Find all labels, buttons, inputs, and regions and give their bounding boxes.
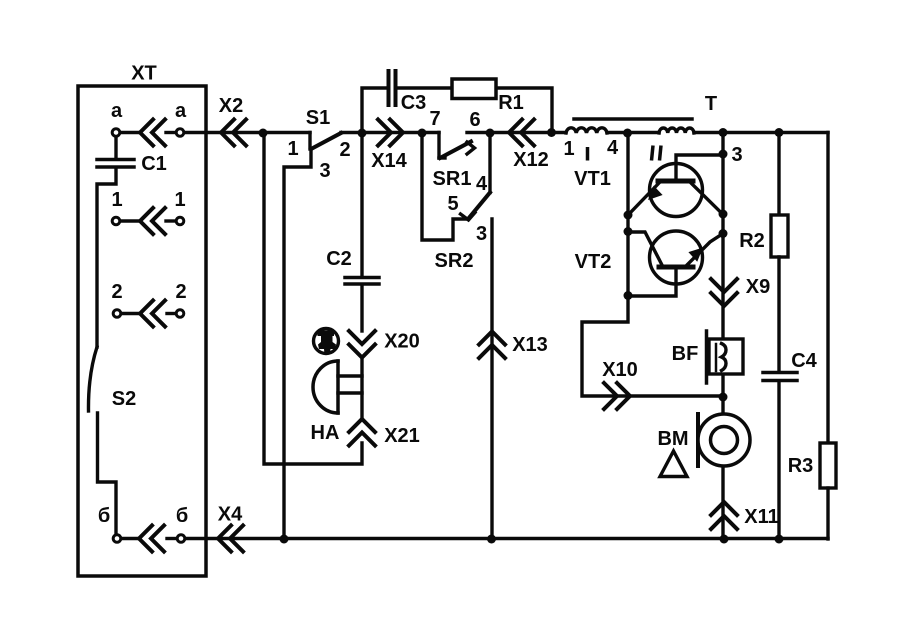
svg-text:X14: X14 <box>371 150 407 172</box>
svg-text:XT: XT <box>131 63 157 85</box>
svg-text:BF: BF <box>672 343 699 365</box>
svg-text:3: 3 <box>319 160 330 182</box>
svg-text:6: 6 <box>469 109 480 131</box>
svg-text:SR2: SR2 <box>435 250 474 272</box>
svg-text:C2: C2 <box>326 248 352 270</box>
svg-text:R3: R3 <box>788 455 814 477</box>
svg-text:S2: S2 <box>112 388 136 410</box>
svg-text:R1: R1 <box>498 92 524 114</box>
svg-text:X12: X12 <box>513 149 549 171</box>
svg-text:C1: C1 <box>141 153 167 175</box>
svg-text:R2: R2 <box>739 230 765 252</box>
svg-text:S1: S1 <box>306 107 330 129</box>
svg-text:2: 2 <box>111 281 122 303</box>
svg-text:a: a <box>175 100 187 122</box>
svg-text:T: T <box>705 93 717 115</box>
svg-text:VT1: VT1 <box>574 168 611 190</box>
svg-text:C4: C4 <box>791 350 817 372</box>
svg-text:4: 4 <box>607 137 619 159</box>
svg-text:HA: HA <box>311 422 340 444</box>
svg-text:4: 4 <box>476 173 488 195</box>
svg-text:SR1: SR1 <box>433 168 472 190</box>
svg-text:X2: X2 <box>219 95 243 117</box>
svg-text:VT2: VT2 <box>575 251 612 273</box>
svg-text:2: 2 <box>339 139 350 161</box>
svg-text:3: 3 <box>731 144 742 166</box>
svg-text:BM: BM <box>657 428 688 450</box>
svg-text:X20: X20 <box>384 331 420 353</box>
svg-text:X21: X21 <box>384 425 420 447</box>
svg-text:1: 1 <box>174 189 185 211</box>
svg-text:3: 3 <box>476 223 487 245</box>
svg-text:X13: X13 <box>512 334 548 356</box>
svg-text:1: 1 <box>563 138 574 160</box>
svg-text:б: б <box>176 505 188 527</box>
svg-text:5: 5 <box>447 193 458 215</box>
svg-text:X10: X10 <box>602 359 638 381</box>
svg-text:1: 1 <box>111 189 122 211</box>
svg-text:a: a <box>111 100 123 122</box>
svg-text:1: 1 <box>287 138 298 160</box>
svg-text:б: б <box>98 505 110 527</box>
svg-text:2: 2 <box>175 281 186 303</box>
svg-text:C3: C3 <box>401 92 427 114</box>
svg-text:X11: X11 <box>744 506 778 528</box>
svg-text:X4: X4 <box>218 504 243 526</box>
svg-text:7: 7 <box>429 108 440 130</box>
svg-text:X9: X9 <box>746 276 770 298</box>
